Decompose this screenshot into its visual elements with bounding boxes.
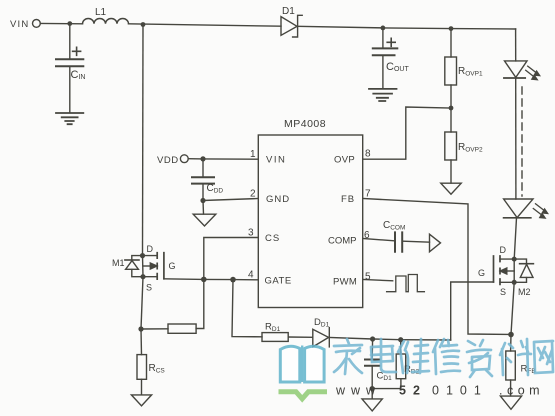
- buffer triangle: [430, 234, 441, 252]
- capacitor CDD: [202, 159, 204, 177]
- svg-text:COMP: COMP: [328, 236, 357, 247]
- svg-text:S: S: [500, 287, 506, 297]
- wire ROVP1 top: [450, 29, 452, 57]
- resistor ROVP1: [445, 57, 457, 85]
- svg-text:GND: GND: [266, 194, 290, 205]
- watermark book icon green base: [279, 392, 328, 399]
- svg-text:COUT: COUT: [386, 61, 409, 73]
- wire RFB to ground: [510, 380, 512, 396]
- junction DD1/CD1 node: [370, 336, 375, 341]
- capacitor CCOM: [395, 232, 402, 251]
- watermark chinese characters: [334, 339, 553, 377]
- IC U1 MP4008 body: [258, 135, 362, 308]
- svg-text:D: D: [147, 244, 154, 254]
- wire PWM pin5 stub: [363, 280, 393, 281]
- svg-text:PWM: PWM: [333, 277, 357, 288]
- svg-text:8: 8: [365, 149, 371, 160]
- resistor RD2: [400, 340, 402, 354]
- svg-text:.com: .com: [499, 384, 544, 398]
- svg-text:ROVP1: ROVP1: [458, 66, 483, 78]
- svg-text:M2: M2: [518, 287, 531, 297]
- junction M2 drain: [512, 257, 517, 262]
- svg-text:VIN: VIN: [266, 155, 286, 166]
- svg-text:CCOM: CCOM: [383, 220, 405, 232]
- junction VDD/CDD node: [200, 156, 205, 161]
- capacitor CD1: [371, 339, 373, 359]
- junction DD1/RD2 node: [398, 337, 403, 342]
- svg-text:4: 4: [248, 270, 254, 281]
- wire M2 source down to FB junction: [511, 282, 514, 334]
- wire COMP pin6 to CCOM: [363, 239, 394, 241]
- svg-text:S: S: [146, 283, 152, 293]
- wire ROVP1 to ROVP2: [450, 85, 452, 132]
- char liao: [500, 339, 531, 375]
- inductor L1: [83, 19, 129, 24]
- node VDD terminal: [180, 155, 188, 163]
- svg-text:52: 52: [399, 384, 427, 398]
- junction CS/GATE node: [201, 277, 207, 283]
- ground triangle below ROVP2: [441, 183, 461, 194]
- wire VDD to pin1: [188, 158, 258, 161]
- svg-text:VDD: VDD: [157, 155, 179, 166]
- wire CS pin3 path: [196, 238, 258, 329]
- svg-text:CS: CS: [265, 233, 280, 244]
- svg-text:1: 1: [250, 149, 256, 160]
- svg-text:FB: FB: [341, 194, 355, 205]
- junction ROVP1 top node: [449, 26, 454, 31]
- capacitor COUT: [387, 38, 395, 46]
- svg-text:D1: D1: [282, 6, 295, 17]
- ground triangle below CD1: [362, 399, 382, 411]
- char xiu: [433, 339, 460, 374]
- transistor M1 (N-MOSFET with body diode): [142, 256, 145, 277]
- ground (earth) below COUT: [369, 89, 397, 101]
- svg-text:GATE: GATE: [265, 276, 292, 287]
- wire GATE pin4 to M1 gate: [164, 279, 258, 280]
- svg-text:www: www: [335, 384, 381, 398]
- wire CDD junction to ground: [202, 201, 205, 215]
- wire D1 to top-right corner: [298, 26, 516, 29]
- junction M2 source: [512, 280, 517, 285]
- wire M2 gate path: [451, 282, 494, 340]
- transistor M2 (N-MOSFET with body diode, mirrored): [513, 259, 515, 282]
- ground triangle below RCS: [131, 395, 151, 406]
- junction GATE/RD1 node: [230, 277, 236, 283]
- svg-text:OVP: OVP: [334, 155, 355, 166]
- svg-text:M1: M1: [112, 258, 125, 268]
- wire LED2 to M2 drain: [514, 218, 516, 259]
- junction M1 source: [140, 274, 145, 279]
- wire LED string: [515, 78, 517, 199]
- wire DD1 to junctions: [329, 337, 450, 340]
- wire VIN to L1: [40, 22, 82, 24]
- svg-text:L1: L1: [95, 7, 107, 18]
- svg-text:CIN: CIN: [71, 69, 86, 81]
- svg-text:RD1: RD1: [265, 322, 281, 334]
- svg-text:D: D: [500, 245, 507, 255]
- char dian: [371, 339, 396, 372]
- wire RCS to ground: [141, 379, 143, 394]
- diode D1 (schottky): [281, 17, 297, 36]
- wire ROVP2 to ground: [450, 160, 452, 183]
- resistor RCS: [137, 355, 147, 380]
- resistor ROVP2: [445, 132, 457, 160]
- svg-text:DD1: DD1: [314, 317, 330, 329]
- wire RD1 to DD1: [288, 336, 313, 338]
- ground triangle below CDD: [193, 214, 216, 226]
- junction CD1/RD2 ground node: [370, 386, 375, 391]
- wire FB pin7 path: [363, 199, 511, 335]
- ground (earth) below CIN: [56, 113, 83, 124]
- dashed LED continuation: [521, 87, 523, 196]
- resistor RFB: [506, 351, 516, 380]
- wire COUT junction down: [382, 28, 384, 48]
- capacitor CIN: [73, 47, 81, 55]
- svg-text:2: 2: [250, 189, 256, 200]
- wire L1 junction down to M1 drain: [142, 25, 145, 256]
- char zi: [467, 340, 492, 377]
- wire CCOM to buffer: [404, 241, 430, 242]
- wire to RCS: [140, 329, 143, 355]
- junction COUT node (VOUT): [381, 26, 386, 31]
- PWM waveform symbol: [387, 275, 425, 292]
- svg-text:G: G: [169, 261, 176, 271]
- resistor (gate pulldown): [168, 324, 196, 333]
- junction OVP divider node: [449, 106, 454, 111]
- svg-text:MP4008: MP4008: [284, 118, 326, 130]
- wire top corner down to LED1: [515, 29, 517, 61]
- wire source junction to gate resistor: [141, 328, 168, 330]
- junction L1/M1-drain node (SW): [141, 22, 146, 27]
- ground triangle below RFB: [500, 396, 521, 409]
- wire top rail down to CIN: [69, 24, 71, 59]
- svg-text:ROVP2: ROVP2: [458, 142, 483, 154]
- svg-text:G: G: [478, 268, 485, 278]
- wire OVP pin8 path: [363, 107, 451, 159]
- junction VIN/CIN node: [67, 21, 72, 26]
- svg-text:0101: 0101: [432, 384, 488, 398]
- watermark book icon pages: [280, 346, 300, 382]
- wire M1 source down: [141, 277, 143, 329]
- svg-text:CDD: CDD: [207, 183, 224, 195]
- svg-text:7: 7: [365, 189, 371, 200]
- junction FB/RFB node: [508, 332, 514, 338]
- wire FB junction to RFB: [510, 335, 512, 352]
- wire CD1 junction to ground: [371, 389, 373, 399]
- node VIN terminal: [33, 20, 41, 28]
- watermark url text: [335, 384, 544, 398]
- LED D (lower): [504, 199, 533, 218]
- LED D (top): [505, 61, 528, 78]
- char jia: [334, 339, 362, 374]
- watermark: [279, 346, 328, 399]
- char wei: [398, 339, 429, 373]
- wire GATE junction down to RD1 row: [232, 280, 262, 337]
- svg-text:3: 3: [248, 228, 254, 239]
- char wang: [534, 341, 553, 373]
- svg-text:6: 6: [364, 230, 370, 241]
- svg-text:RCS: RCS: [149, 363, 166, 375]
- wire CDD junction to GND pin2: [203, 199, 258, 201]
- resistor RD1: [262, 333, 288, 342]
- junction M1 drain: [140, 253, 145, 258]
- junction CDD/GND node: [200, 198, 205, 203]
- svg-text:VIN: VIN: [10, 19, 29, 30]
- junction M1-source/RCS node: [138, 326, 143, 331]
- diode DD1: [313, 329, 329, 347]
- wire L1 to D1 anode: [129, 24, 282, 26]
- svg-text:5: 5: [365, 272, 371, 283]
